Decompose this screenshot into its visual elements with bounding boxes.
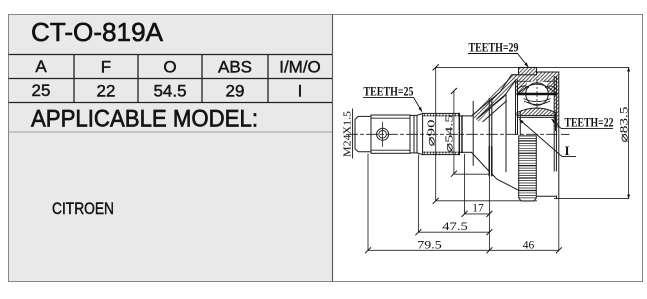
labels (364, 41, 614, 159)
header row (35, 57, 320, 77)
svg-text:APPLICABLE MODEL:: APPLICABLE MODEL: (31, 106, 258, 133)
svg-text:CITROEN: CITROEN (52, 199, 114, 218)
dim line 17 (465, 213, 490, 215)
svg-text:22: 22 (97, 82, 116, 101)
svg-text:⌀54.5: ⌀54.5 (444, 114, 456, 153)
top shared extension line (436, 66, 630, 68)
bell mouth inner edge (505, 94, 507, 171)
dia54.5 dimension line (453, 91, 455, 174)
block outline ABS (519, 67, 537, 74)
rotated labels (343, 106, 631, 157)
boot groove verticals (488, 99, 490, 176)
svg-text:M24X1.5: M24X1.5 (343, 111, 354, 157)
svg-text:17: 17 (472, 203, 484, 215)
dim line 79.5 / 46 (368, 249, 559, 251)
table grid lines (9, 55, 333, 103)
svg-text:46: 46 (523, 240, 535, 252)
leaders (414, 54, 563, 157)
svg-text:25: 25 (32, 81, 51, 100)
extra inner cone line (480, 95, 506, 117)
svg-text:I: I (565, 143, 570, 158)
washer / nut grooves (410, 114, 417, 116)
svg-text:⌀90: ⌀90 (426, 119, 438, 147)
outer race inner surface (516, 80, 531, 82)
spline ring TEETH=25 (423, 113, 460, 154)
inner cone surfaces (478, 81, 516, 119)
top band (514, 75, 559, 82)
race groove arcs near ball (517, 86, 529, 90)
cross hole circle (377, 128, 389, 140)
inner race hatched band (517, 108, 556, 116)
cage section (dark bar across) (517, 93, 558, 96)
ABS toothed band (exterior, stripes) (519, 135, 537, 137)
hatch regions (472, 67, 559, 127)
boot groove dark lower segments (488, 147, 490, 176)
svg-text:⌀83.5: ⌀83.5 (619, 106, 631, 142)
right wall band (554, 77, 558, 128)
svg-text:I: I (298, 82, 303, 101)
svg-text:79.5: 79.5 (417, 240, 442, 252)
svg-text:A: A (35, 57, 47, 76)
bell cone outer top (472, 75, 519, 116)
bell bottom edge (537, 195, 557, 197)
hole vertical centerline (382, 122, 384, 146)
slash ticks (365, 64, 562, 253)
dia83.5 bottom extension (554, 198, 629, 200)
dia90 bottom extension (436, 200, 537, 202)
shaft end cap (355, 116, 371, 151)
dia90 dimension line (435, 67, 437, 200)
bell right wall (553, 77, 555, 172)
svg-text:TEETH=29: TEETH=29 (469, 41, 519, 55)
ball (526, 83, 549, 106)
outer race spherical arch over ball (518, 84, 556, 93)
svg-text:I/M/O: I/M/O (279, 58, 321, 77)
svg-text:TEETH=25: TEETH=25 (364, 85, 414, 99)
ext verticals (367, 154, 369, 251)
centerline (347, 133, 558, 135)
boot lip vertical (472, 102, 474, 166)
value row (32, 81, 303, 101)
ball side patches (516, 82, 527, 94)
taper to spline ring (417, 113, 423, 115)
neck (462, 115, 472, 117)
threaded shaft body M24X1.5 (371, 115, 410, 153)
ring right flange (459, 115, 462, 117)
ball vertical centerline (536, 79, 538, 111)
svg-text:F: F (101, 58, 111, 77)
cavity left wall (515, 80, 517, 135)
svg-text:54.5: 54.5 (153, 82, 186, 101)
thread relief lines (371, 117, 410, 119)
svg-text:ABS: ABS (218, 58, 252, 77)
svg-text:TEETH=22: TEETH=22 (565, 116, 614, 130)
svg-text:29: 29 (226, 82, 245, 101)
svg-text:47.5: 47.5 (442, 221, 468, 233)
inner race left edge (519, 113, 521, 135)
dia83.5 dimension line (628, 67, 630, 198)
panel divider (332, 15, 334, 282)
race groove arc through ball (524, 99, 551, 102)
ABS ring section block (519, 67, 537, 74)
bell top edges (537, 71, 559, 73)
svg-text:O: O (163, 58, 176, 77)
dia54.5 bottom extension (454, 173, 489, 175)
svg-text:CT-O-819A: CT-O-819A (31, 17, 164, 47)
bell cone bottom (exterior) (472, 152, 490, 171)
left sloped wall (472, 75, 518, 122)
dim line 47.5 (418, 231, 489, 233)
left gray panel (9, 15, 333, 282)
dimension numbers (417, 203, 534, 252)
applicable model underline (9, 131, 333, 133)
